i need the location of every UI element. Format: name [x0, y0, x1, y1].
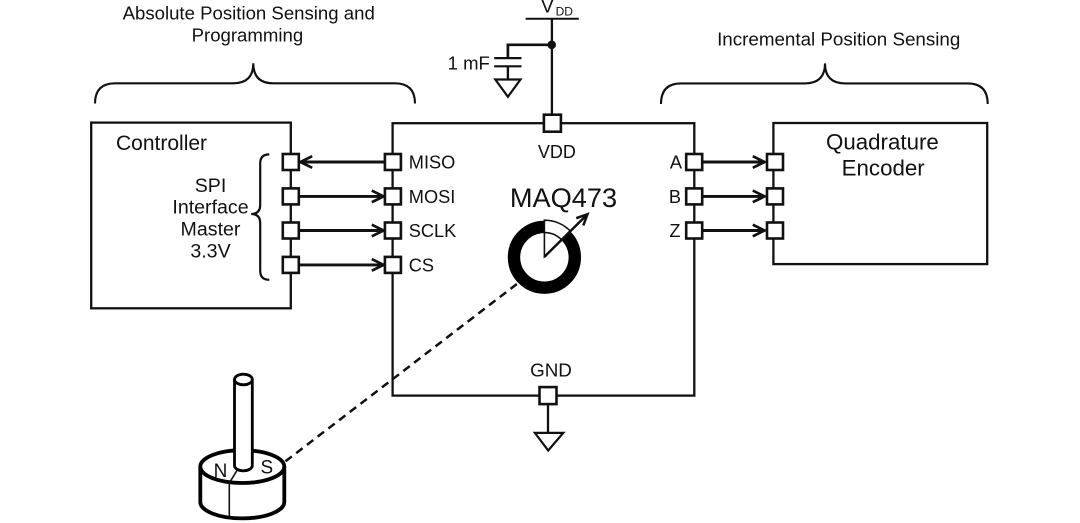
rotor symbol wedge — [544, 220, 570, 257]
wire A arrow (to encoder) — [703, 156, 765, 168]
pin encoder B — [767, 188, 783, 204]
svg-text:A: A — [670, 153, 683, 173]
magnet disc right side — [282, 467, 286, 502]
wire GND pin to ground — [547, 405, 549, 434]
ground (GND pin) — [535, 433, 563, 451]
wire MOSI arrow (to MAQ473) — [300, 191, 384, 203]
wire B arrow (to encoder) — [703, 191, 765, 203]
brace SPI interface — [251, 154, 269, 279]
wire junction to capacitor — [508, 45, 552, 57]
magnet disc top face — [200, 450, 284, 483]
wire capacitor to ground — [507, 66, 509, 79]
pin controller MOSI — [283, 188, 299, 204]
controller box — [91, 123, 291, 309]
svg-text:Controller: Controller — [116, 132, 207, 155]
wire Z arrow (to encoder) — [703, 225, 765, 237]
svg-text:SCLK: SCLK — [409, 221, 457, 241]
svg-text:B: B — [669, 187, 681, 207]
wire CS arrow (to MAQ473) — [300, 259, 384, 271]
pin controller MISO — [283, 154, 299, 170]
magnet pole divider front — [228, 483, 230, 517]
svg-text:Encoder: Encoder — [842, 156, 926, 181]
pin MAQ473 GND — [540, 387, 557, 404]
svg-text:Incremental Position Sensing: Incremental Position Sensing — [717, 29, 960, 50]
svg-text:Z: Z — [669, 221, 680, 241]
pin MAQ473 MOSI — [385, 188, 401, 204]
svg-text:Quadrature: Quadrature — [826, 130, 939, 155]
pin MAQ473 A — [686, 154, 702, 170]
pin MAQ473 MISO — [385, 154, 401, 170]
encoder box — [773, 123, 987, 264]
svg-text:S: S — [261, 458, 274, 479]
svg-text:Absolute Position Sensing and: Absolute Position Sensing and — [123, 2, 375, 23]
rotor symbol ring — [514, 227, 575, 288]
text SPI Interface Master 3.3V — [172, 175, 248, 263]
pin controller CS — [283, 257, 299, 273]
magnet disc bottom — [200, 502, 284, 518]
svg-text:1 mF: 1 mF — [448, 53, 490, 74]
svg-text:Programming: Programming — [192, 25, 304, 46]
svg-text:V: V — [541, 0, 554, 18]
svg-text:Interface: Interface — [172, 197, 248, 219]
pin encoder A — [767, 154, 783, 170]
pin encoder Z — [767, 223, 783, 239]
pin MAQ473 B — [686, 188, 702, 204]
pin MAQ473 CS — [385, 257, 401, 273]
rotor arrow — [544, 214, 587, 257]
brace right (incremental position group) — [661, 63, 988, 104]
wire MISO arrow (to controller) — [300, 156, 384, 168]
ground (capacitor) — [495, 80, 520, 97]
caption: Absolute Position Sensing and Programming — [123, 2, 375, 45]
pin MAQ473 SCLK — [385, 223, 401, 239]
svg-text:Master: Master — [181, 219, 241, 241]
net label VDD rail — [526, 0, 579, 19]
svg-text:MISO: MISO — [409, 153, 455, 173]
magnet shaft — [235, 374, 253, 471]
svg-text:MOSI: MOSI — [409, 187, 455, 207]
pin controller SCLK — [283, 223, 299, 239]
magnet pole divider top — [229, 468, 238, 483]
capacitor C1 1 mF — [494, 58, 521, 66]
pin MAQ473 VDD — [544, 115, 561, 132]
svg-text:GND: GND — [530, 359, 572, 380]
svg-text:VDD: VDD — [538, 142, 576, 162]
junction dot — [547, 41, 556, 50]
text Quadrature Encoder — [826, 130, 939, 181]
svg-text:3.3V: 3.3V — [190, 240, 230, 262]
svg-text:SPI: SPI — [195, 175, 227, 197]
dashed link magnet to rotor — [286, 283, 519, 461]
svg-text:DD: DD — [556, 5, 574, 19]
brace left (absolute position group) — [95, 63, 415, 103]
rotor symbol inner arc — [544, 233, 561, 240]
svg-text:CS: CS — [409, 256, 434, 276]
pin MAQ473 Z — [686, 223, 702, 239]
MAQ473 box — [393, 123, 695, 395]
svg-text:MAQ473: MAQ473 — [510, 182, 617, 213]
wire VDD rail to pin — [551, 19, 553, 115]
svg-text:N: N — [214, 461, 228, 482]
magnet disc left side — [198, 467, 202, 502]
wire SCLK arrow (to MAQ473) — [300, 225, 384, 237]
